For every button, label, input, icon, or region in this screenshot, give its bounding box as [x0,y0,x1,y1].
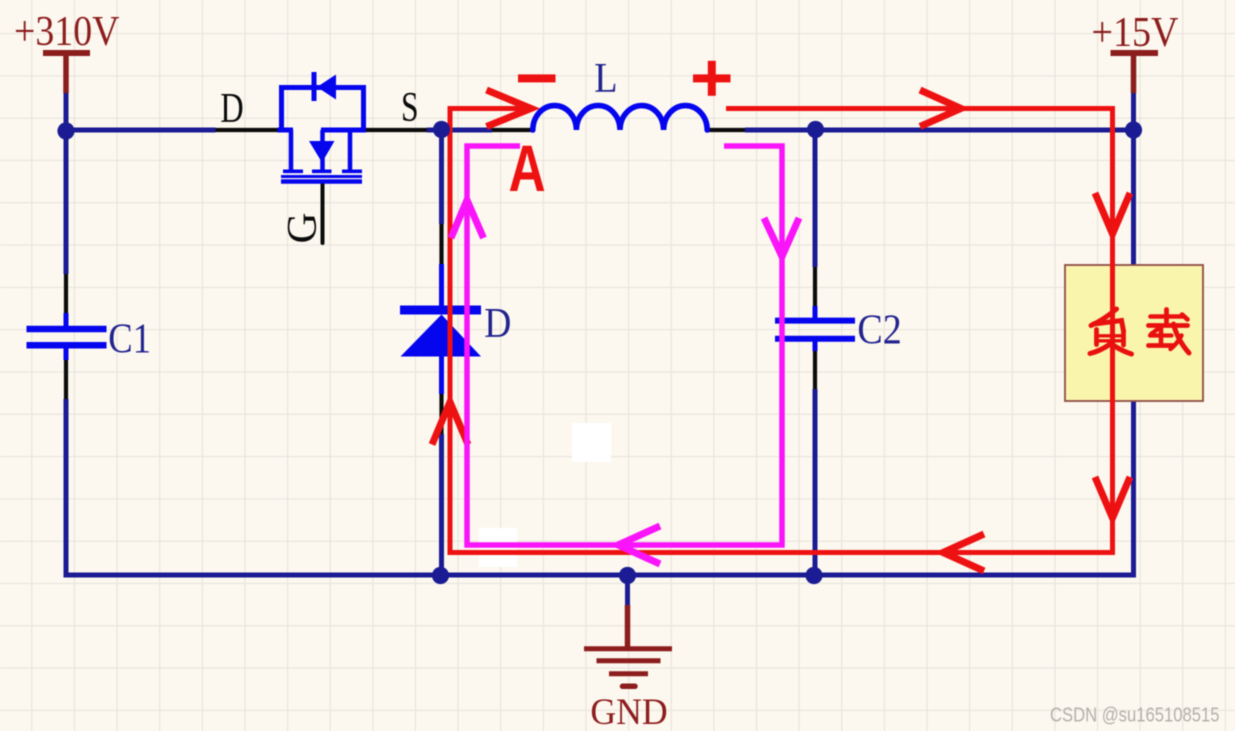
svg-text:G: G [280,213,326,244]
svg-text:C2: C2 [857,308,901,354]
svg-text:D: D [484,301,511,347]
svg-text:S: S [401,85,419,131]
svg-text:D: D [220,86,243,132]
svg-text:C1: C1 [108,317,151,363]
svg-text:+310V: +310V [14,9,120,55]
svg-text:CSDN @su165108515: CSDN @su165108515 [1050,705,1220,727]
svg-text:+15V: +15V [1092,10,1179,56]
svg-text:A: A [509,131,546,206]
svg-text:L: L [594,56,617,102]
svg-text:GND: GND [590,692,667,731]
